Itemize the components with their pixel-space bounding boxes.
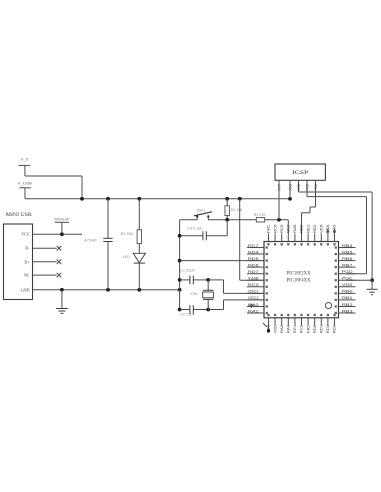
svg-text:RC0: RC0: [248, 283, 259, 287]
svg-text:RB2: RB2: [342, 303, 353, 307]
svg-text:RD7: RD7: [248, 270, 259, 274]
svg-text:OSC1: OSC1: [248, 290, 259, 294]
svg-text:RD3: RD3: [333, 325, 337, 334]
svg-text:RD4: RD4: [248, 250, 259, 254]
svg-text:R1 10k: R1 10k: [231, 208, 243, 212]
svg-text:RC1: RC1: [293, 325, 297, 334]
svg-text:RD5: RD5: [248, 257, 259, 261]
svg-text:470nF: 470nF: [84, 238, 98, 242]
svg-text:RE1: RE1: [306, 224, 310, 233]
svg-text:SW1: SW1: [197, 209, 206, 213]
svg-text:RB0: RB0: [342, 290, 353, 294]
svg-text:GND: GND: [21, 287, 30, 292]
svg-text:RD1: RD1: [320, 325, 324, 334]
svg-text:D-: D-: [25, 246, 30, 251]
svg-text:RA5: RA5: [293, 224, 297, 233]
svg-text:LED: LED: [123, 255, 130, 259]
svg-text:RC7: RC7: [248, 244, 259, 248]
svg-text:VCC: VCC: [21, 232, 30, 237]
svg-text:RD0: RD0: [313, 325, 317, 334]
svg-text:RB4: RB4: [342, 244, 353, 248]
svg-text:PGD: PGD: [342, 270, 353, 274]
svg-text:RE0: RE0: [300, 224, 304, 233]
svg-text:PGC: PGC: [342, 277, 353, 281]
svg-text:RD6: RD6: [248, 263, 259, 267]
svg-text:MINI USB: MINI USB: [6, 213, 32, 218]
svg-text:RA1: RA1: [248, 309, 259, 313]
svg-text:NC: NC: [267, 223, 271, 233]
svg-text:RC5: RC5: [280, 224, 284, 233]
svg-text:V_USB: V_USB: [17, 181, 32, 186]
svg-text:MCLR: MCLR: [287, 224, 291, 233]
svg-text:RD2: RD2: [326, 325, 330, 334]
svg-text:VUSB: VUSB: [248, 277, 259, 281]
svg-text:R3 470: R3 470: [254, 213, 265, 217]
svg-text:XTAL: XTAL: [190, 292, 198, 296]
svg-text:RB3: RB3: [342, 309, 353, 313]
svg-text:ICSP: ICSP: [292, 171, 309, 176]
svg-text:NC: NC: [24, 273, 30, 278]
svg-text:R2 330: R2 330: [121, 232, 134, 236]
svg-text:RC2: RC2: [300, 325, 304, 334]
svg-text:NC: NC: [306, 324, 310, 334]
svg-text:RB6: RB6: [342, 257, 353, 261]
svg-text:RB1: RB1: [342, 296, 353, 300]
svg-text:V_5: V_5: [21, 157, 29, 162]
svg-text:RA4: RA4: [287, 325, 291, 334]
svg-text:C2 22pF: C2 22pF: [180, 312, 196, 316]
svg-text:D+: D+: [24, 259, 30, 264]
svg-text:RE2: RE2: [313, 224, 317, 233]
svg-text:RC6: RC6: [273, 224, 277, 233]
svg-text:500mA: 500mA: [54, 218, 70, 222]
svg-text:C1 22pF: C1 22pF: [180, 268, 196, 272]
svg-text:PIC18F2XX: PIC18F2XX: [287, 272, 312, 277]
svg-text:VDD: VDD: [273, 324, 277, 333]
svg-text:RB5: RB5: [342, 250, 353, 254]
svg-text:RB7: RB7: [342, 263, 353, 267]
svg-text:OSC2: OSC2: [248, 296, 259, 300]
svg-text:VSS: VSS: [342, 283, 353, 287]
svg-text:PIC18F4XX: PIC18F4XX: [287, 278, 312, 283]
svg-text:RA2: RA2: [280, 325, 284, 334]
svg-text:VDD: VDD: [320, 224, 324, 233]
svg-text:C3 0.1uF: C3 0.1uF: [187, 226, 203, 230]
